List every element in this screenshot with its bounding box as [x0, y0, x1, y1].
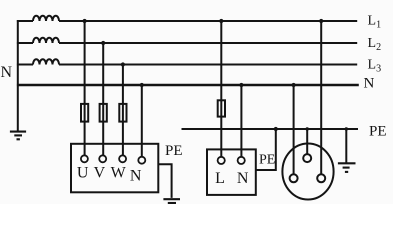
- wire: neutral drop to round socket left pin: [293, 85, 295, 174]
- node: PE bus to round socket earth pin junction: [306, 127, 309, 130]
- wire: neutral drop to three-phase socket N terminal: [141, 85, 143, 157]
- three-phase socket X1 enclosure: [71, 144, 158, 193]
- wire: W-phase feeder drop to three-phase socket: [122, 65, 124, 156]
- inductor: transformer winding phase L2: [33, 38, 59, 43]
- svg-text:W: W: [111, 165, 127, 182]
- wire: phase bus L3: [17, 64, 357, 66]
- wire: PE tail from socket X1 to local earth: [158, 164, 171, 198]
- node: N bus to three-phase socket N junction: [140, 83, 144, 87]
- fuse FU1 (U phase): [81, 104, 88, 122]
- svg-text:N: N: [237, 170, 249, 187]
- wire: neutral bus N: [17, 84, 359, 86]
- earth pin of socket X3: [303, 154, 311, 162]
- terminal L of socket X2: [218, 157, 225, 164]
- node: L1 to U feeder junction: [83, 19, 87, 23]
- svg-text:U: U: [77, 165, 89, 182]
- node: N bus to round socket N pin junction: [292, 83, 296, 87]
- wire: PE bus drop to repeated earthing: [345, 129, 347, 163]
- terminal N of socket X2: [238, 157, 245, 164]
- inductor: transformer winding phase L1: [33, 16, 59, 21]
- svg-text:V: V: [94, 165, 106, 182]
- terminal V of socket X1: [99, 155, 106, 162]
- terminal N of socket X1: [138, 157, 145, 164]
- node: PE bus to repeated earth junction: [345, 127, 348, 130]
- wire: phase bus L1: [17, 20, 357, 22]
- node: PE bus to socket X2 earth junction: [274, 127, 278, 131]
- node: N bus to single-phase socket N junction: [239, 83, 243, 87]
- fuse FU4 (single-phase L): [218, 100, 225, 116]
- fuse FU2 (V phase): [100, 104, 107, 122]
- wire: left vertical bus from L1 down to earth: [17, 20, 19, 131]
- right pin (L) of socket X3: [317, 174, 325, 182]
- wire: PE connection from PE bus to socket X2 earth terminal: [256, 129, 276, 170]
- svg-text:PE: PE: [165, 143, 183, 159]
- svg-text:L: L: [215, 170, 225, 187]
- wire: V-phase feeder drop to three-phase socket: [102, 43, 104, 155]
- terminal W of socket X1: [119, 155, 126, 162]
- node: L1 to single-phase L feeder junction: [219, 19, 223, 23]
- svg-text:N: N: [364, 76, 375, 92]
- svg-text:PE: PE: [259, 153, 275, 168]
- wire: L1 phase drop to round socket right pin: [320, 21, 322, 174]
- terminal U of socket X1: [81, 155, 88, 162]
- inductor: transformer winding phase L3: [33, 59, 59, 64]
- svg-text:N: N: [130, 168, 142, 185]
- single-phase socket X2 enclosure: [207, 149, 256, 195]
- ground: repeated earthing of PE at installation: [338, 163, 356, 172]
- node: L3 to W feeder junction: [121, 62, 125, 66]
- ground: system earthing at transformer neutral: [10, 132, 26, 140]
- wire: L-phase feeder drop to single-phase socket (from L1): [220, 21, 222, 157]
- wire: protective earth bus PE: [182, 128, 359, 130]
- fuse FU3 (W phase): [119, 104, 126, 122]
- wire: U-phase feeder drop to three-phase socket: [84, 21, 86, 155]
- wire: neutral drop to single-phase socket N terminal: [240, 85, 242, 157]
- round socket X3 (socket with earthing contact) outline: [282, 144, 333, 200]
- svg-text:N: N: [1, 64, 13, 81]
- svg-text:PE: PE: [369, 124, 387, 140]
- ground: earth of socket X1 PE: [163, 199, 180, 203]
- wire: phase bus L2: [17, 42, 357, 44]
- node: L2 to V feeder junction: [101, 41, 105, 45]
- left pin (N) of socket X3: [290, 174, 298, 182]
- wire: PE drop to round socket earth pin: [306, 129, 308, 154]
- node: L1 to round socket feeder junction: [319, 19, 323, 23]
